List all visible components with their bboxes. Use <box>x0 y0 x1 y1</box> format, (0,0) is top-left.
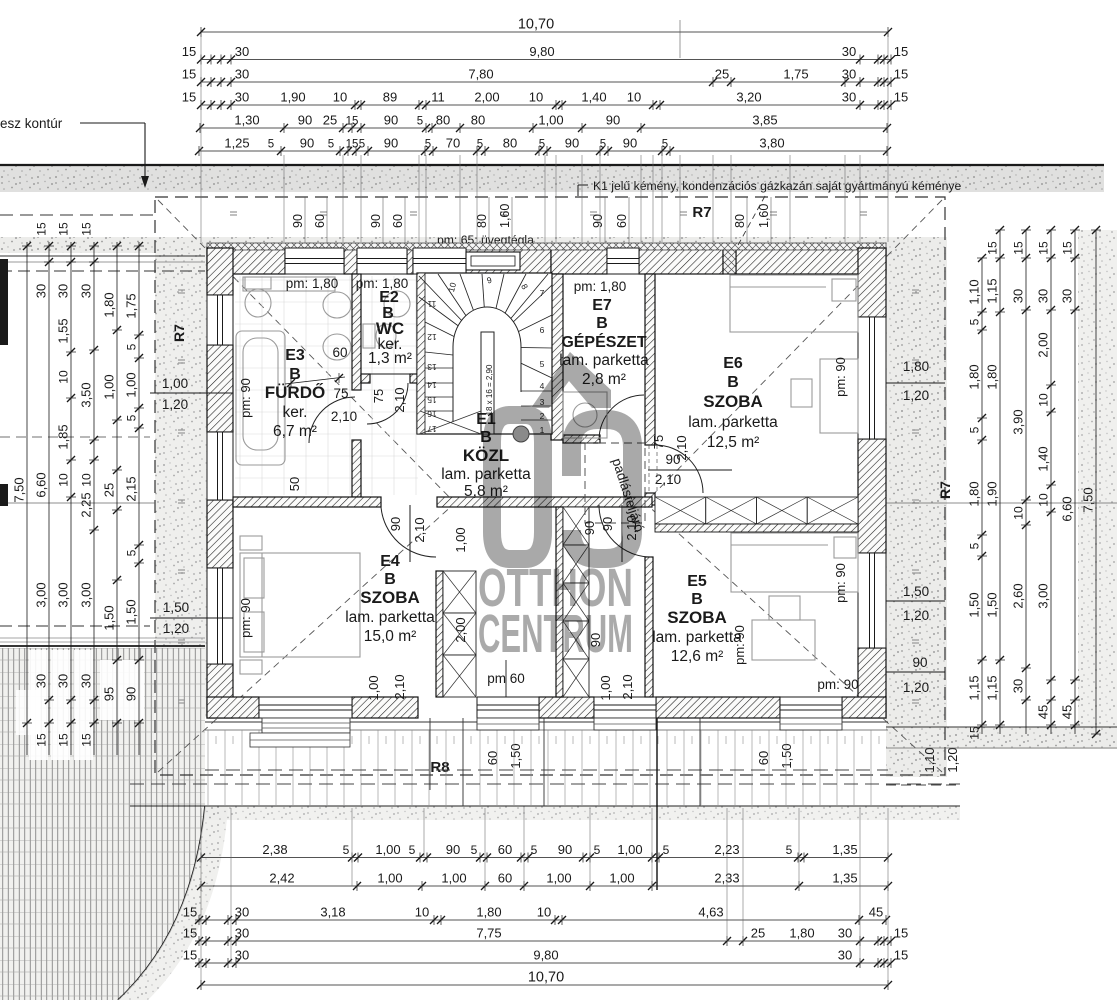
svg-text:3,50: 3,50 <box>79 382 94 407</box>
bath shelf along top wall <box>243 277 335 291</box>
svg-text:15: 15 <box>80 222 94 236</box>
svg-text:1,10: 1,10 <box>967 279 982 304</box>
svg-text:15: 15 <box>35 733 49 747</box>
wall bath/WC upper <box>352 274 361 390</box>
svg-text:E4: E4 <box>380 553 400 570</box>
svg-text:60: 60 <box>615 214 629 228</box>
right wall seg 3 <box>858 648 886 718</box>
svg-text:17: 17 <box>427 424 437 434</box>
svg-text:2,10: 2,10 <box>331 409 357 424</box>
svg-text:7,80: 7,80 <box>468 67 493 82</box>
svg-text:SZOBA: SZOBA <box>703 392 763 411</box>
svg-text:30: 30 <box>838 948 852 963</box>
svg-text:14: 14 <box>427 380 437 390</box>
right dim col 6 <box>1095 230 1097 734</box>
svg-text:1,20: 1,20 <box>903 388 929 403</box>
svg-text:pm: 1,80: pm: 1,80 <box>574 279 627 294</box>
svg-text:1,00: 1,00 <box>546 871 571 886</box>
top wall seg B <box>466 248 551 274</box>
wall bath/corridor lower <box>352 440 361 497</box>
left dim col 6 <box>138 242 140 755</box>
svg-text:2,00: 2,00 <box>1036 332 1051 357</box>
svg-text:3,00: 3,00 <box>79 582 94 607</box>
svg-text:1,20: 1,20 <box>945 747 960 772</box>
svg-text:B: B <box>596 315 608 332</box>
top dim row 4 <box>201 104 891 106</box>
eave strip equals marks <box>178 212 919 703</box>
watermark logo roof arrow <box>531 352 611 408</box>
bottom wall opening corridor <box>477 697 539 718</box>
svg-text:9,80: 9,80 <box>529 44 554 59</box>
svg-text:1,30: 1,30 <box>234 113 259 128</box>
svg-text:B: B <box>691 591 703 608</box>
glass brick box <box>466 252 520 270</box>
closet column B (E5 side) <box>563 507 589 545</box>
stair right flight treads <box>494 390 552 392</box>
roof outline R7 dashed rectangle <box>155 197 945 775</box>
deck vertical separators <box>429 718 431 790</box>
svg-text:1,90: 1,90 <box>985 481 1000 506</box>
staircase enclosure <box>417 273 552 434</box>
svg-text:1,50: 1,50 <box>967 592 982 617</box>
svg-text:3,85: 3,85 <box>752 113 777 128</box>
svg-text:1,80: 1,80 <box>789 926 814 941</box>
svg-text:30: 30 <box>842 67 856 82</box>
svg-text:15: 15 <box>894 926 908 941</box>
outer insulation skin strip top <box>207 243 886 250</box>
H-wall corridor/closets <box>437 497 652 507</box>
window top wall over stairs <box>413 248 466 274</box>
svg-text:E7: E7 <box>592 297 612 314</box>
svg-text:1,15: 1,15 <box>967 675 982 700</box>
bottom wall opening E4 terrace door <box>259 697 352 718</box>
stair spine <box>481 332 494 434</box>
svg-text:10,70: 10,70 <box>528 970 564 986</box>
bath tile grid <box>235 276 418 495</box>
svg-text:pm: 90: pm: 90 <box>817 677 858 692</box>
stair fan lines <box>419 297 487 347</box>
E7 bottom wall seg <box>563 435 600 443</box>
svg-text:1,80: 1,80 <box>476 905 501 920</box>
svg-text:5: 5 <box>594 843 601 857</box>
svg-text:6,60: 6,60 <box>34 472 49 497</box>
svg-text:25: 25 <box>715 67 729 82</box>
svg-text:esz kontúr: esz kontúr <box>0 116 63 131</box>
svg-text:45: 45 <box>869 905 883 920</box>
svg-text:1,00: 1,00 <box>162 376 188 391</box>
svg-text:2,25: 2,25 <box>79 492 94 517</box>
svg-text:30: 30 <box>235 67 249 82</box>
svg-text:2,60: 2,60 <box>1011 583 1026 608</box>
svg-text:60: 60 <box>391 214 405 228</box>
terrain stipple far right <box>1078 230 1117 730</box>
svg-text:90: 90 <box>446 842 460 857</box>
svg-text:15: 15 <box>183 905 197 920</box>
svg-text:90: 90 <box>369 214 383 228</box>
stair left flight treads <box>425 367 481 369</box>
eave stipple band above building <box>0 237 947 253</box>
svg-text:10: 10 <box>529 90 543 105</box>
svg-text:1,50: 1,50 <box>903 584 929 599</box>
svg-text:pm: 90: pm: 90 <box>833 357 848 397</box>
desk E5 <box>752 620 815 660</box>
svg-text:9,80: 9,80 <box>533 948 558 963</box>
svg-text:30: 30 <box>79 284 94 298</box>
right wall seg 2 <box>858 439 886 553</box>
bottom dim row C <box>195 919 886 921</box>
svg-text:5: 5 <box>417 116 423 128</box>
svg-text:1,40: 1,40 <box>581 90 606 105</box>
svg-text:30: 30 <box>235 90 249 105</box>
sink E3 b <box>323 334 351 360</box>
svg-text:1,35: 1,35 <box>832 871 857 886</box>
svg-text:15: 15 <box>986 241 1000 255</box>
terrain stipple band bottom right <box>886 727 1117 749</box>
right wall window E5 <box>858 553 886 648</box>
svg-text:15: 15 <box>894 90 908 105</box>
roof ridge dashed <box>455 502 645 504</box>
svg-text:90: 90 <box>565 136 579 151</box>
svg-text:90: 90 <box>124 687 139 701</box>
svg-text:25: 25 <box>323 113 337 128</box>
svg-text:5: 5 <box>539 139 545 151</box>
left site dashed lines <box>0 214 155 216</box>
window top wall E7/E6 <box>607 248 639 274</box>
R8 dashed line <box>205 769 888 771</box>
svg-text:6,60: 6,60 <box>1060 496 1075 521</box>
stipple along curve <box>118 806 228 1000</box>
svg-text:90: 90 <box>606 113 620 128</box>
right dim col 1 <box>981 258 983 734</box>
door bath E3 <box>309 397 355 443</box>
svg-text:10: 10 <box>415 905 429 920</box>
svg-text:15: 15 <box>346 116 359 128</box>
top dim row 2 <box>201 59 891 61</box>
svg-text:30: 30 <box>235 905 249 920</box>
svg-text:pm: 90: pm: 90 <box>238 378 253 418</box>
svg-text:15: 15 <box>894 44 908 59</box>
closet row between E6 and E5 <box>655 497 706 524</box>
right wall seg 1 <box>858 248 886 317</box>
svg-text:SZOBA: SZOBA <box>360 588 420 607</box>
svg-text:1,00: 1,00 <box>598 675 613 700</box>
svg-text:FÜRDŐ: FÜRDŐ <box>265 383 325 402</box>
svg-text:16: 16 <box>427 409 437 419</box>
watermark letter O ring <box>492 415 543 559</box>
svg-text:5: 5 <box>968 318 982 325</box>
svg-text:SZOBA: SZOBA <box>667 608 727 627</box>
svg-text:1,00: 1,00 <box>124 372 139 397</box>
wall E7/E6 <box>645 274 655 445</box>
svg-text:15: 15 <box>427 395 437 405</box>
svg-text:R7: R7 <box>692 204 711 221</box>
svg-text:6,7 m²: 6,7 m² <box>273 423 317 440</box>
top dim row 1 (10,70) <box>201 31 888 33</box>
svg-text:15: 15 <box>1012 241 1026 255</box>
svg-text:1,3 m²: 1,3 m² <box>368 350 412 367</box>
svg-text:pm: 1,80: pm: 1,80 <box>356 276 409 291</box>
bottom wall seg 2 <box>352 697 418 718</box>
svg-text:10,70: 10,70 <box>518 17 554 33</box>
bottom wall seg 4 <box>656 697 780 718</box>
stair entry dot <box>513 426 529 442</box>
right dim col 5 <box>1074 230 1076 734</box>
svg-text:90: 90 <box>591 214 605 228</box>
thresholds <box>477 718 539 730</box>
svg-text:6: 6 <box>540 325 545 335</box>
svg-text:R7: R7 <box>937 481 953 499</box>
svg-text:3,80: 3,80 <box>759 136 784 151</box>
svg-text:1,10: 1,10 <box>922 747 937 772</box>
door E5 <box>599 505 651 557</box>
top wall pier A2 <box>344 248 357 274</box>
svg-text:B: B <box>384 571 396 588</box>
bottom dim row B <box>201 885 888 887</box>
svg-text:30: 30 <box>842 44 856 59</box>
svg-text:1,20: 1,20 <box>903 608 929 623</box>
H-wall bath/E4 <box>233 497 381 507</box>
svg-text:1,20: 1,20 <box>903 680 929 695</box>
svg-text:GÉPÉSZET: GÉPÉSZET <box>561 332 647 351</box>
svg-text:pm: 90: pm: 90 <box>732 625 747 665</box>
svg-text:1,35: 1,35 <box>832 842 857 857</box>
left dim col 1 <box>26 242 28 755</box>
left wall window E4 upper <box>207 432 233 500</box>
svg-text:15: 15 <box>346 139 359 151</box>
svg-text:1,80: 1,80 <box>102 292 117 317</box>
svg-text:10: 10 <box>1012 506 1026 520</box>
boiler E7 <box>563 392 607 438</box>
bottom dim row A <box>201 857 888 859</box>
svg-text:3,18: 3,18 <box>320 905 345 920</box>
left wall section pieces <box>0 259 8 345</box>
svg-text:1,60: 1,60 <box>498 204 512 228</box>
top wall seg B2 <box>551 248 607 274</box>
svg-text:1,55: 1,55 <box>56 318 71 343</box>
svg-text:1,00: 1,00 <box>366 675 381 700</box>
svg-text:15: 15 <box>1037 241 1051 255</box>
stair side hatch strip left <box>417 273 425 434</box>
svg-text:12,6 m²: 12,6 m² <box>671 648 724 665</box>
svg-text:1,50: 1,50 <box>779 743 794 768</box>
svg-text:5: 5 <box>786 843 793 857</box>
svg-text:2,00: 2,00 <box>453 617 468 642</box>
svg-text:10: 10 <box>57 473 71 487</box>
svg-text:lam. parketta: lam. parketta <box>688 414 778 431</box>
right wall window E6 <box>858 317 886 439</box>
svg-text:1,15: 1,15 <box>985 675 1000 700</box>
brick hatched ground area bottom left <box>0 648 205 1000</box>
wall pier below E6 door <box>645 493 655 505</box>
svg-text:5: 5 <box>540 359 545 369</box>
svg-text:60: 60 <box>498 871 512 886</box>
svg-text:90: 90 <box>558 842 572 857</box>
svg-text:5: 5 <box>125 343 139 350</box>
svg-text:15: 15 <box>57 222 71 236</box>
svg-text:13: 13 <box>427 362 437 372</box>
svg-text:4,63: 4,63 <box>698 905 723 920</box>
stair walk arch fill <box>453 307 521 433</box>
svg-text:15: 15 <box>182 90 196 105</box>
svg-text:E5: E5 <box>687 573 707 590</box>
svg-text:90: 90 <box>912 655 927 670</box>
svg-text:R7: R7 <box>171 324 187 342</box>
svg-text:90: 90 <box>384 136 398 151</box>
svg-text:1,80: 1,80 <box>903 359 929 374</box>
svg-text:30: 30 <box>235 926 249 941</box>
desk E6 <box>820 359 858 433</box>
svg-text:30: 30 <box>56 284 71 298</box>
bottom dim row D <box>195 940 891 942</box>
svg-text:ker.: ker. <box>283 404 308 421</box>
sink E3 a <box>323 292 351 318</box>
svg-text:90: 90 <box>291 214 305 228</box>
svg-text:15,0 m²: 15,0 m² <box>364 628 417 645</box>
svg-text:E6: E6 <box>723 355 743 372</box>
bottom dim row E <box>195 962 891 964</box>
svg-text:15: 15 <box>182 44 196 59</box>
svg-text:90: 90 <box>300 136 314 151</box>
svg-text:30: 30 <box>34 284 49 298</box>
bottom wall seg 3 <box>539 697 594 718</box>
svg-text:1,00: 1,00 <box>375 842 400 857</box>
svg-text:CENTRUM: CENTRUM <box>478 604 633 664</box>
WC bottom wall line <box>361 373 419 375</box>
svg-text:5: 5 <box>359 139 365 151</box>
svg-text:7,75: 7,75 <box>476 926 501 941</box>
svg-text:1,50: 1,50 <box>163 600 189 615</box>
svg-text:R8: R8 <box>430 759 449 776</box>
svg-text:7: 7 <box>540 288 545 298</box>
svg-text:15: 15 <box>57 733 71 747</box>
svg-text:1,00: 1,00 <box>377 871 402 886</box>
svg-text:30: 30 <box>56 674 71 688</box>
svg-text:4: 4 <box>540 381 545 391</box>
svg-text:10: 10 <box>1037 393 1051 407</box>
svg-text:1,75: 1,75 <box>124 293 139 318</box>
svg-text:1,50: 1,50 <box>102 605 117 630</box>
bed E4 double <box>240 553 360 657</box>
stair walk arch <box>453 307 521 422</box>
bottom wall seg 1 <box>207 697 259 718</box>
svg-text:1,00: 1,00 <box>617 842 642 857</box>
left dim col 4 <box>93 242 95 755</box>
svg-text:3,00: 3,00 <box>34 582 49 607</box>
top extension lines <box>200 155 202 242</box>
svg-text:1,00: 1,00 <box>453 527 468 552</box>
svg-text:90: 90 <box>582 521 597 535</box>
bottom extension lines <box>200 808 202 985</box>
svg-text:2,10: 2,10 <box>620 674 635 699</box>
WC wall pier <box>410 374 419 383</box>
svg-text:15: 15 <box>183 948 197 963</box>
svg-text:1,00: 1,00 <box>538 113 563 128</box>
stair bottom cross <box>420 411 481 434</box>
section line across <box>0 502 155 504</box>
svg-text:30: 30 <box>1060 289 1075 303</box>
svg-text:5: 5 <box>409 843 416 857</box>
dashed corner R7 bottom right <box>886 784 960 786</box>
terrace bottom edge <box>130 805 960 807</box>
svg-text:5: 5 <box>477 139 483 151</box>
svg-text:90: 90 <box>298 113 312 128</box>
left wall seg 4 <box>207 664 233 718</box>
svg-text:15: 15 <box>894 948 908 963</box>
svg-text:K1 jelű kémény, kondenzációs g: K1 jelű kémény, kondenzációs gázkazán sa… <box>593 179 962 193</box>
left wall seg 1 <box>207 248 233 295</box>
top dim row 3 <box>201 81 891 83</box>
svg-text:10: 10 <box>537 905 551 920</box>
svg-text:7,50: 7,50 <box>12 477 27 502</box>
svg-text:30: 30 <box>235 44 249 59</box>
bottom wall opening E5 door b <box>780 697 842 718</box>
terrain section band top <box>0 166 1104 192</box>
left wall window E4 lower <box>207 568 233 664</box>
svg-text:80: 80 <box>471 113 485 128</box>
svg-text:10: 10 <box>1037 493 1051 507</box>
svg-text:1,50: 1,50 <box>124 599 139 624</box>
top wall seg A <box>207 248 285 274</box>
closet column A (E4 side) <box>443 571 476 613</box>
svg-text:95: 95 <box>102 687 117 701</box>
svg-text:90: 90 <box>388 517 403 531</box>
terrain stipple below terrace <box>200 806 960 820</box>
svg-text:1,40: 1,40 <box>1036 446 1051 471</box>
left dim col 2 <box>48 242 50 755</box>
svg-text:2,10: 2,10 <box>392 387 407 412</box>
bottom dim row F <box>201 984 888 986</box>
stair left winder treads <box>425 322 481 350</box>
svg-text:pm: 90: pm: 90 <box>833 563 848 603</box>
svg-text:10: 10 <box>57 370 71 384</box>
svg-text:3,20: 3,20 <box>736 90 761 105</box>
eave stipple strip right of building <box>886 237 947 777</box>
svg-text:15: 15 <box>35 222 49 236</box>
wall E5 left <box>645 557 653 697</box>
svg-text:50: 50 <box>287 477 302 491</box>
curve boundary of ground <box>118 806 205 1000</box>
svg-text:2,10: 2,10 <box>674 435 689 460</box>
svg-text:pm: 90: pm: 90 <box>238 598 253 638</box>
svg-text:2,00: 2,00 <box>474 90 499 105</box>
terrace steps bottom-left opening <box>262 718 350 733</box>
right eave bottom lines <box>886 726 1117 728</box>
svg-text:2,10: 2,10 <box>412 517 427 542</box>
svg-text:75: 75 <box>371 389 386 403</box>
svg-text:1,00: 1,00 <box>609 871 634 886</box>
svg-text:1,20: 1,20 <box>163 621 189 636</box>
svg-text:1,80: 1,80 <box>967 364 982 389</box>
left wall window bath <box>207 295 233 345</box>
svg-text:2,38: 2,38 <box>262 842 287 857</box>
svg-text:11: 11 <box>427 299 436 309</box>
svg-text:10: 10 <box>627 90 641 105</box>
svg-text:89: 89 <box>383 90 397 105</box>
svg-text:15: 15 <box>1061 241 1075 255</box>
window top wall over bath 2 <box>357 248 407 274</box>
toilet E2 <box>363 324 375 348</box>
svg-text:45: 45 <box>1036 705 1051 719</box>
svg-text:1,80: 1,80 <box>967 481 982 506</box>
door WC E2 <box>367 383 408 424</box>
right dim col 2 <box>999 230 1001 734</box>
terrace tick row <box>216 736 879 744</box>
white boxes over brick for left dim labels <box>29 650 48 760</box>
left wall seg 2 <box>207 345 233 432</box>
attic hatch dashed box <box>585 443 645 523</box>
svg-text:1,90: 1,90 <box>280 90 305 105</box>
bed E5 <box>731 533 858 592</box>
